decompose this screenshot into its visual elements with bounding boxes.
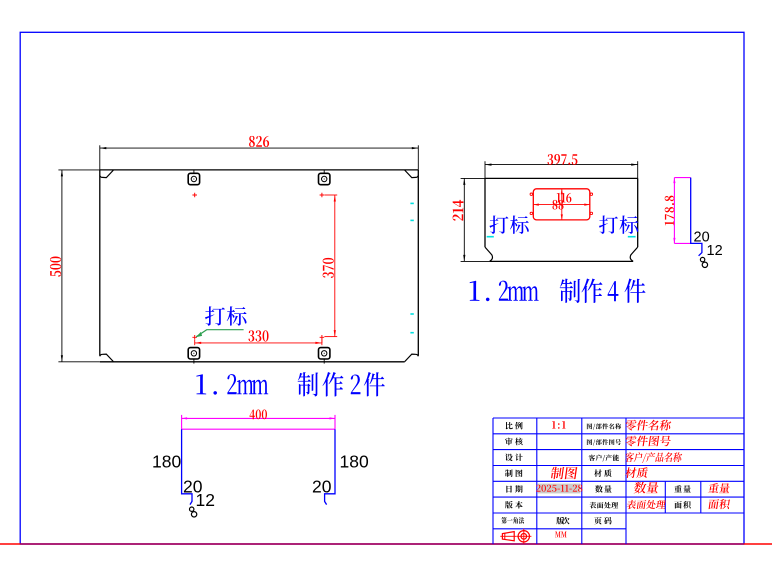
value 1:1: [552, 421, 566, 429]
label 重量: [674, 485, 690, 492]
slot corner circle S1: [530, 193, 532, 195]
cyan mark M4 on P1 right edge: [410, 332, 413, 334]
label 8 (PR1, CAD circles): [700, 257, 707, 267]
leader line 打标 on P1: [195, 330, 244, 339]
dimension 397.5 top of P2: [485, 154, 638, 178]
bottom red border line: [0, 543, 772, 545]
label 12: [196, 490, 215, 510]
date highlight box: [538, 484, 581, 494]
dimension 400 profile width: [182, 410, 335, 430]
value 制图: [550, 467, 578, 479]
first-angle projection symbol: [500, 529, 531, 544]
label 打标 right (P2): [599, 215, 638, 233]
label 12 (PR1): [707, 243, 723, 259]
value 重量: [708, 483, 731, 493]
slot corner circle S2: [590, 193, 592, 195]
title block grid: [493, 418, 744, 544]
label 打标 left (P2): [489, 215, 528, 233]
label 制图: [505, 469, 522, 476]
label 图/部件名称: [587, 423, 621, 429]
label 面积: [674, 501, 690, 509]
center mark node A3: [192, 335, 197, 340]
label 20 right: [312, 477, 332, 497]
label 页码: [594, 517, 612, 525]
label 打标 (P1): [205, 306, 246, 325]
label 审核: [505, 438, 523, 446]
corner notch P2 bottom-left: [485, 247, 492, 261]
corner notch P1 top-right: [405, 170, 419, 178]
svg-text:180: 180: [152, 452, 181, 472]
part P2 outline (397.5x214 plate): [485, 178, 638, 261]
corner notch P1 bottom-right: [405, 354, 419, 362]
square hole H3: [188, 348, 199, 364]
label 180 right: [340, 452, 369, 472]
profile PR2 left web: [182, 429, 192, 504]
slot corner circle S3: [530, 212, 532, 214]
slot corner circle S4: [590, 212, 592, 214]
dimension 826 top of P1: [100, 136, 419, 170]
label 版次: [556, 517, 569, 525]
profile PR1 (flange section): [691, 178, 702, 256]
dimension 88 slot height: [552, 189, 563, 220]
label 客户/产能: [589, 455, 619, 462]
dimension 178.8 profile height: [665, 178, 692, 244]
label 20 (PR1): [694, 230, 710, 246]
label 第一角法: [501, 517, 524, 524]
dimension 370 inside P1: [322, 195, 337, 343]
svg-text:180: 180: [340, 452, 369, 472]
part P1 outline (826x500 plate): [100, 170, 419, 362]
label 1.2mm 制作2件: [196, 372, 384, 396]
value 2025-11-28: [536, 485, 582, 492]
value 零件图号: [625, 436, 672, 447]
label 180 left: [152, 452, 181, 472]
value MM: [555, 531, 567, 537]
label 表面处理: [589, 502, 618, 509]
cyan mark M2 on P1 right edge: [410, 219, 413, 221]
dimension 214 left of P2: [453, 178, 490, 261]
cutout slot P2 (116x88): [533, 189, 590, 220]
label 比例: [506, 422, 523, 430]
label 数量: [595, 485, 612, 493]
svg-text:12: 12: [707, 243, 723, 259]
square hole H2: [319, 170, 330, 185]
label 20 left: [183, 477, 203, 497]
corner notch P2 bottom-right: [630, 247, 637, 261]
svg-text:12: 12: [196, 490, 215, 510]
label 版本: [505, 501, 523, 509]
label 1.2mm 制作4件: [470, 279, 646, 303]
center mark node A4: [320, 335, 325, 340]
value 数量: [633, 482, 659, 494]
label 材质: [594, 469, 611, 477]
corner notch P1 top-left: [100, 170, 114, 178]
corner notch P1 bottom-left: [100, 354, 114, 362]
profile PR2 right web: [325, 429, 335, 504]
label 设计: [505, 454, 523, 461]
value 表面处理: [626, 500, 666, 509]
label 图/部件图号: [587, 439, 621, 445]
square hole H4: [319, 348, 330, 364]
cyan mark on P2 right edge: [628, 236, 636, 238]
svg-text:20: 20: [312, 477, 332, 497]
dimension 116 slot width: [533, 193, 590, 206]
center mark node A2: [320, 193, 325, 198]
dimension 330 inside P1: [195, 330, 322, 345]
value 面积: [708, 499, 731, 509]
label 8 (PR2, CAD circles): [190, 507, 197, 517]
cyan mark on P2 left edge: [487, 236, 494, 238]
value 材质: [625, 467, 649, 478]
profile PR2 top edge: [182, 428, 335, 430]
cyan mark M3 on P1 right edge: [410, 313, 413, 315]
square hole H1: [188, 170, 199, 185]
cyan mark M1 on P1 right edge: [410, 202, 413, 204]
center mark node A1: [192, 193, 197, 198]
label 日期: [506, 485, 522, 492]
value 客户/产品名称: [625, 452, 683, 463]
dimension 500 left of P1: [50, 170, 100, 362]
value 零件名称: [625, 420, 672, 431]
